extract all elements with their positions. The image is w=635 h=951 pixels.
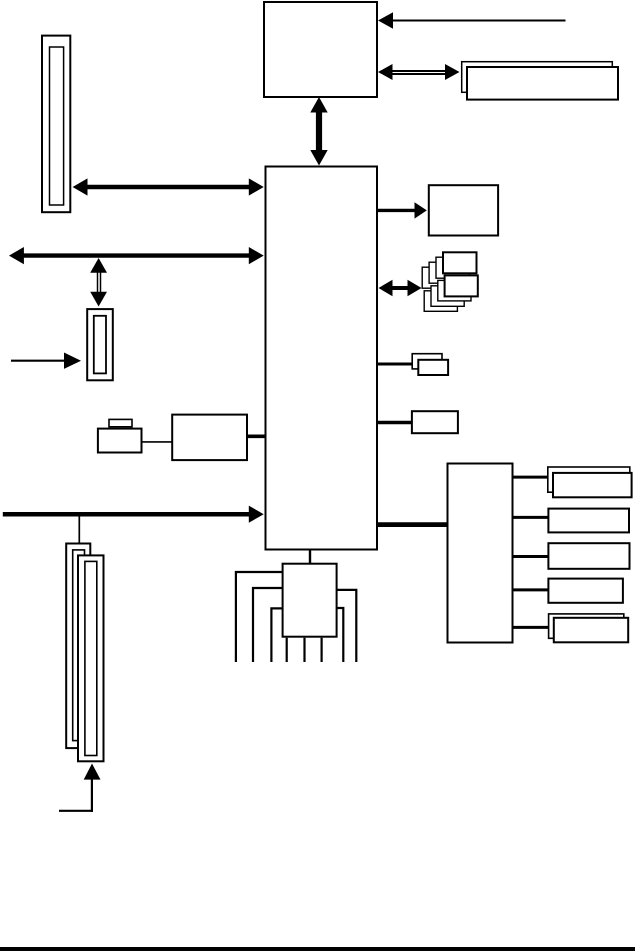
system bus shaft — [21, 253, 251, 257]
super I/O leg left 1 — [236, 572, 282, 662]
I/O bus shaft (bottom left) — [3, 512, 251, 517]
arrowhead into connector slot — [64, 353, 81, 369]
vertical link arrowhead down — [90, 292, 107, 307]
memory bus arrowhead right — [249, 178, 264, 195]
front-side bus arrowhead up — [310, 97, 327, 113]
USB stack front rect — [418, 360, 448, 375]
clock generator box — [172, 415, 247, 461]
PCI stack group 1 rect 4 (backmost) — [422, 267, 456, 288]
vertical link arrowhead up — [90, 258, 107, 273]
CPU box U1 — [264, 2, 377, 97]
PCI bus shaft — [391, 286, 409, 290]
PCI stack group 2 rect 1 (front) — [445, 275, 478, 296]
wire chipset to port box — [378, 421, 411, 425]
PCI bus arrowhead left — [379, 280, 393, 296]
arrowhead at CPU end of cache bus — [378, 64, 393, 80]
super I/O box U4 — [283, 564, 337, 637]
wire: I/O bus down to ISA slots — [78, 516, 80, 543]
PCI stack group 2 rect 2 — [438, 280, 471, 301]
connector slot outer (small, left) — [87, 309, 113, 380]
wire: L feed to ISA slot horizontal — [59, 810, 93, 812]
system bus arrowhead left — [9, 247, 24, 264]
bus: CPU to cache lower line — [391, 73, 446, 75]
wire chipset to USB stack — [378, 363, 412, 366]
port 5 front rect — [554, 618, 628, 643]
arrowhead into CPU right edge — [378, 12, 393, 28]
wire: input line to connector slot — [11, 360, 65, 362]
USB stack back rect — [412, 354, 442, 369]
wire I/O controller to port 1 — [513, 476, 548, 479]
bus: CPU to cache upper line — [391, 70, 446, 72]
PCI stack group 2 rect 3 — [431, 286, 464, 307]
ISA slot back outer — [66, 544, 90, 749]
single port box (right) — [412, 411, 458, 433]
arrow chipset to display box shaft — [378, 209, 416, 212]
port 5 back rect — [549, 614, 624, 638]
bottom page rule — [0, 947, 635, 951]
wire I/O controller to port 4 — [513, 588, 548, 591]
PCI stack group 1 rect 1 (front) — [443, 252, 477, 273]
arrowhead into display box — [415, 202, 427, 218]
front-side bus CPU to chipset: shaft — [316, 110, 322, 152]
port 1 front rect — [553, 473, 632, 497]
wire: L feed to ISA slot vertical — [91, 778, 93, 812]
super I/O leg bottom 3 — [321, 638, 323, 662]
cache module front rect — [467, 67, 618, 100]
connector slot inner — [94, 316, 106, 374]
DIMM slot inner — [50, 47, 64, 205]
super I/O leg right 1 — [337, 608, 343, 662]
memory bus shaft — [85, 185, 251, 189]
port 2 box — [548, 509, 629, 533]
PCI stack group 1 rect 2 — [436, 257, 470, 278]
cache module back rect — [462, 62, 613, 93]
wire I/O controller to port 2 — [513, 516, 548, 519]
port 4 box — [548, 579, 623, 603]
arrowhead at cache end of cache bus — [445, 64, 460, 80]
wire chipset to super I/O — [309, 549, 311, 564]
ISA slot back inner — [73, 550, 85, 741]
wire: external signal into CPU — [391, 20, 566, 22]
super I/O leg bottom 2 — [303, 638, 305, 662]
super I/O leg left 2 — [253, 588, 282, 662]
port 1 back rect — [548, 467, 630, 492]
DIMM slot outer (top left) — [42, 36, 70, 213]
super I/O leg right 2 — [337, 590, 356, 662]
super I/O leg left 3 — [271, 608, 282, 662]
wire chipset to I/O controller — [378, 522, 447, 527]
wire I/O controller to port 3 — [513, 555, 548, 558]
ISA slot front inner — [85, 561, 97, 755]
PCI stack group 2 rect 4 (backmost) — [424, 291, 457, 312]
wire I/O controller to port 5 — [513, 626, 548, 629]
memory bus arrowhead left — [73, 178, 88, 195]
wire clock generator to chipset — [247, 434, 265, 438]
display box (top right of chipset) — [429, 185, 498, 235]
I/O bus arrowhead right — [249, 506, 264, 523]
arrowhead up into ISA slot — [84, 764, 101, 780]
system bus arrowhead right — [249, 247, 264, 264]
ISA slot front outer — [78, 555, 104, 761]
front-side bus arrowhead down — [310, 150, 327, 166]
super I/O leg bottom 1 — [286, 638, 288, 662]
port 3 box — [548, 543, 629, 569]
PCI bus arrowhead right — [408, 280, 422, 296]
PCI stack group 1 rect 3 — [429, 262, 463, 283]
vertical link left line — [97, 271, 99, 293]
chipset box U2 (center) — [266, 167, 378, 550]
I/O controller tall box U3 — [448, 464, 513, 643]
crystal cap rect X1 — [109, 419, 132, 426]
crystal body X1 — [98, 429, 142, 453]
wire crystal to clock generator — [142, 441, 172, 443]
vertical link right line — [100, 271, 102, 293]
